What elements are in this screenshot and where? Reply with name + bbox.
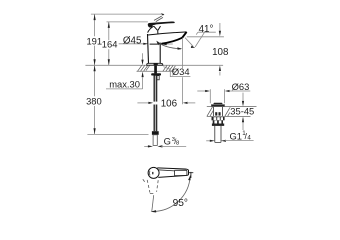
svg-text:8: 8 (176, 140, 179, 146)
leader base to d34 (163, 67, 170, 70)
dim d63 (197, 90, 206, 92)
41 deg leader line (195, 32, 204, 47)
svg-text:G1: G1 (230, 130, 243, 141)
svg-text:35-45: 35-45 (230, 106, 254, 117)
hose end cap (152, 131, 159, 135)
41 degree leader underline (198, 31, 216, 33)
dim line 380 vertical (94, 65, 96, 134)
spray axis line (185, 38, 193, 47)
top view: angle leg line (152, 195, 154, 211)
drain locknut row2 (213, 120, 223, 123)
arrow 380 top (94, 65, 96, 71)
top view: circle inner arc (148, 171, 151, 175)
top view: dashed hidden spout left (143, 179, 145, 181)
dim 35-45 down arrow (242, 93, 244, 101)
drain cap plate (213, 103, 223, 105)
aerator face at tip (182, 32, 187, 38)
arc arrow bottom-left (151, 210, 157, 212)
deck bottom line (137, 70, 175, 72)
drain cap flange (211, 104, 225, 106)
phantom raised lever line 1 (154, 16, 162, 20)
faucet base center dark (154, 63, 158, 65)
dim line 191 vertical (94, 14, 96, 65)
arc arrow right (177, 47, 182, 49)
svg-text:164: 164 (102, 39, 118, 50)
svg-text:106: 106 (161, 99, 178, 110)
arrow d45 left (143, 43, 148, 45)
dim line 164 vertical (108, 22, 110, 65)
braided hose (154, 76, 158, 132)
basin band bottom line (207, 115, 251, 117)
top view: lever inner cross line (174, 170, 176, 176)
top view: lever outline (157, 168, 188, 178)
extension line hose end (87, 133, 148, 135)
svg-text:G: G (164, 136, 171, 147)
41 deg arc (157, 42, 181, 49)
top view: lever inset panel (175, 170, 187, 175)
dim G1 1/4 (206, 140, 211, 142)
spout underside thin continuation (150, 43, 162, 45)
mounting washer nut (151, 73, 161, 75)
arrow d45 right with tail (167, 43, 173, 45)
deck hatch right (163, 65, 176, 71)
svg-text:380: 380 (86, 96, 102, 107)
top view: cap circle (148, 167, 159, 178)
top view: dashed hidden spout v (147, 180, 150, 193)
aerator vertical extension (181, 38, 183, 104)
svg-text:191: 191 (86, 35, 102, 46)
dim 108 top arrow (219, 23, 221, 31)
svg-text:Ø45: Ø45 (123, 35, 142, 46)
svg-text:41°: 41° (199, 24, 214, 35)
lever-dome V notch (154, 26, 161, 33)
arc arrow top-right (188, 175, 190, 180)
arrow 191 top (94, 14, 96, 20)
body right edge (159, 43, 161, 64)
deck top line (85, 64, 223, 66)
aerator horizontal extension (187, 36, 224, 38)
95 deg arc (153, 176, 191, 211)
drain locknut row1 (212, 117, 225, 120)
dim diameter45 underline (119, 43, 144, 45)
drain collar ring (212, 124, 224, 126)
deck hatch left (138, 65, 150, 71)
max30 lower arrow (142, 77, 144, 89)
drain tube through basin (213, 107, 222, 116)
spray axis arrowhead (191, 46, 195, 48)
basin hatch right (225, 107, 231, 117)
arrow tip at lever phantom (161, 13, 165, 15)
top view: cap inner tick (152, 172, 154, 174)
basin hatch left (207, 107, 214, 117)
drain tailpipe (215, 126, 221, 142)
shank below deck (154, 66, 157, 74)
dim 106 (137, 102, 149, 104)
arc arrow left (156, 41, 160, 46)
extension line top (lever raised height) (91, 13, 163, 15)
max30 upper arrow (142, 53, 144, 59)
arrow 164 bottom (108, 59, 110, 65)
cartridge dome curve (148, 26, 154, 32)
max30 box (106, 88, 143, 90)
arrow 191 bottom (94, 59, 96, 65)
svg-text:4: 4 (247, 134, 251, 141)
hose connector pipe (153, 135, 157, 146)
extension line 164 level (107, 21, 148, 23)
basin band top line (207, 106, 257, 108)
dim 108 bottom arrow (219, 72, 221, 76)
svg-text:Ø34: Ø34 (172, 66, 190, 77)
41 deg underline stub (196, 32, 198, 34)
faucet lever dark (148, 22, 175, 28)
phantom raised lever line 2 (156, 17, 163, 21)
svg-text:95°: 95° (173, 198, 188, 209)
spout underside thick (162, 38, 183, 44)
T mark (189, 172, 193, 178)
faucet base (147, 63, 163, 65)
drain: d63 extension lines (210, 89, 224, 103)
label 35-45 on white (230, 107, 256, 115)
hose gap at 106 dim (153, 102, 158, 105)
arrow 380 bottom (94, 128, 96, 134)
arrow 164 top (108, 22, 110, 28)
svg-text:max.30: max.30 (109, 79, 140, 90)
spout top edge (148, 32, 187, 35)
dim G3/8 arrows (144, 145, 149, 147)
top view: lever inner long line (158, 170, 175, 171)
hose crimp tab (157, 76, 159, 80)
body left edge (148, 34, 149, 64)
dim 35-45 up arrow (242, 122, 244, 131)
svg-text:Ø63: Ø63 (232, 81, 250, 92)
drain tube castellation marks (215, 112, 217, 115)
label diameter 34 bracket (170, 68, 190, 76)
svg-text:108: 108 (212, 47, 229, 58)
